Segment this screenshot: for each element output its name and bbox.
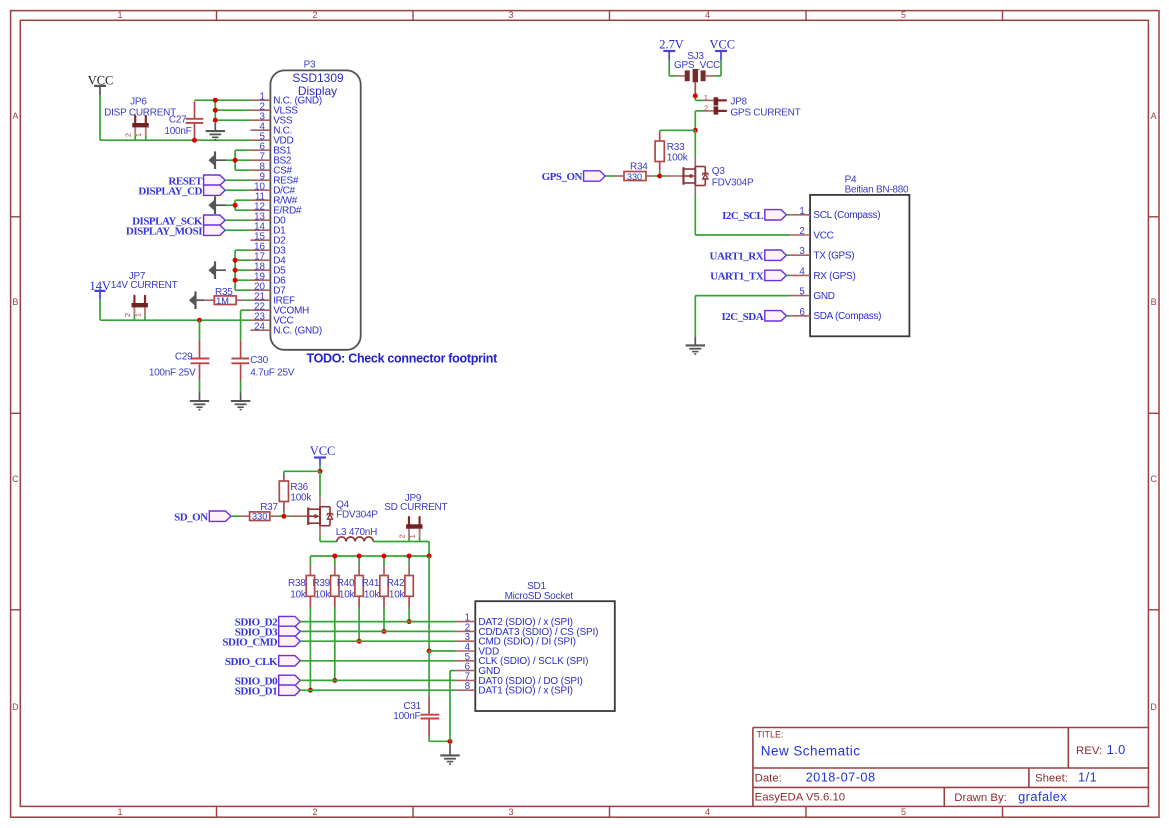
svg-text:VCC: VCC: [710, 38, 735, 52]
svg-text:2: 2: [799, 226, 804, 237]
svg-text:330: 330: [252, 512, 267, 522]
svg-text:D: D: [1150, 702, 1157, 712]
svg-text:C: C: [12, 474, 19, 484]
svg-text:24: 24: [254, 321, 265, 332]
svg-text:100nF: 100nF: [393, 711, 420, 722]
svg-text:R42: R42: [387, 578, 405, 589]
svg-text:C: C: [1150, 474, 1157, 484]
svg-text:VCC: VCC: [813, 230, 833, 241]
svg-text:P3: P3: [304, 60, 316, 71]
svg-text:4: 4: [799, 266, 805, 277]
svg-text:6: 6: [799, 307, 805, 318]
svg-text:D: D: [12, 702, 19, 712]
svg-text:2.7V: 2.7V: [659, 38, 683, 52]
svg-text:2: 2: [123, 313, 132, 317]
svg-text:2: 2: [312, 807, 317, 817]
svg-text:B: B: [1151, 297, 1157, 307]
svg-text:GPS CURRENT: GPS CURRENT: [730, 107, 800, 118]
svg-text:1: 1: [133, 313, 142, 317]
svg-text:3: 3: [799, 246, 805, 257]
svg-text:TX (GPS): TX (GPS): [813, 251, 854, 262]
svg-text:2018-07-08: 2018-07-08: [806, 769, 876, 784]
svg-text:10k: 10k: [315, 590, 332, 601]
svg-text:8: 8: [465, 681, 471, 692]
svg-text:1: 1: [134, 133, 143, 137]
svg-text:I2C_SCL: I2C_SCL: [722, 210, 763, 222]
svg-text:SDIO_CLK: SDIO_CLK: [225, 656, 278, 668]
svg-text:10k: 10k: [339, 590, 356, 601]
svg-text:GND: GND: [813, 291, 834, 302]
svg-text:SD_ON: SD_ON: [174, 511, 208, 523]
svg-text:100nF: 100nF: [164, 126, 191, 137]
svg-text:R40: R40: [337, 578, 355, 589]
svg-text:Sheet:: Sheet:: [1035, 772, 1068, 784]
svg-text:2: 2: [124, 133, 133, 137]
svg-text:SCL (Compass): SCL (Compass): [813, 210, 880, 221]
svg-text:EasyEDA V5.6.10: EasyEDA V5.6.10: [755, 792, 846, 804]
svg-text:I2C_SDA: I2C_SDA: [721, 311, 763, 323]
svg-text:C27: C27: [169, 115, 187, 126]
svg-text:2: 2: [397, 534, 406, 538]
svg-text:B: B: [12, 297, 18, 307]
svg-text:R41: R41: [362, 578, 380, 589]
svg-text:VCC: VCC: [310, 444, 335, 458]
svg-text:SSD1309: SSD1309: [292, 71, 344, 85]
svg-text:3: 3: [508, 10, 513, 20]
svg-text:1: 1: [117, 10, 122, 20]
svg-text:Q3: Q3: [712, 166, 726, 177]
svg-text:SDIO_D1: SDIO_D1: [235, 685, 277, 697]
svg-text:1: 1: [704, 93, 708, 102]
svg-text:Drawn By:: Drawn By:: [954, 792, 1007, 804]
svg-text:L3 470nH: L3 470nH: [336, 527, 377, 538]
svg-text:SDA (Compass): SDA (Compass): [813, 311, 881, 322]
svg-text:DISPLAY_CD: DISPLAY_CD: [138, 185, 202, 197]
svg-text:100nF 25V: 100nF 25V: [149, 367, 196, 378]
svg-text:JP6: JP6: [130, 96, 147, 107]
svg-text:10k: 10k: [389, 590, 406, 601]
svg-text:4: 4: [705, 807, 710, 817]
svg-text:1: 1: [408, 534, 417, 538]
svg-text:A: A: [12, 111, 18, 121]
svg-text:FDV304P: FDV304P: [712, 177, 754, 188]
svg-text:Date:: Date:: [755, 772, 782, 784]
svg-text:5: 5: [901, 807, 906, 817]
svg-text:UART1_TX: UART1_TX: [710, 271, 764, 283]
svg-text:UART1_RX: UART1_RX: [710, 250, 764, 262]
svg-text:1: 1: [799, 206, 804, 217]
svg-text:C30: C30: [250, 355, 268, 366]
svg-text:A: A: [1151, 111, 1157, 121]
svg-text:10k: 10k: [364, 590, 381, 601]
svg-text:5: 5: [799, 287, 805, 298]
svg-text:JP8: JP8: [730, 97, 747, 108]
svg-text:SDIO_CMD: SDIO_CMD: [222, 636, 277, 648]
svg-text:RX (GPS): RX (GPS): [813, 271, 855, 282]
svg-text:Beitian BN-880: Beitian BN-880: [845, 185, 909, 196]
svg-text:REV:: REV:: [1076, 745, 1102, 757]
svg-text:1.0: 1.0: [1107, 742, 1126, 757]
svg-text:TITLE:: TITLE:: [757, 729, 784, 739]
svg-text:R39: R39: [312, 578, 330, 589]
svg-text:4: 4: [705, 10, 710, 20]
svg-text:1M: 1M: [216, 296, 229, 306]
svg-text:3: 3: [508, 807, 513, 817]
svg-text:1: 1: [117, 807, 122, 817]
svg-text:330: 330: [627, 172, 642, 182]
svg-text:C29: C29: [175, 351, 193, 362]
svg-text:1/1: 1/1: [1078, 769, 1097, 784]
svg-text:10k: 10k: [290, 590, 307, 601]
svg-text:SD CURRENT: SD CURRENT: [384, 502, 447, 513]
svg-text:100k: 100k: [290, 492, 312, 503]
svg-text:4.7uF 25V: 4.7uF 25V: [250, 367, 294, 378]
svg-text:FDV304P: FDV304P: [336, 510, 378, 521]
svg-text:grafalex: grafalex: [1018, 789, 1067, 804]
svg-text:TODO: Check connector footprin: TODO: Check connector footprint: [307, 352, 499, 366]
svg-text:R38: R38: [288, 578, 306, 589]
svg-text:100k: 100k: [667, 152, 689, 163]
svg-text:DISPLAY_MOSI: DISPLAY_MOSI: [126, 225, 202, 237]
svg-text:New Schematic: New Schematic: [761, 744, 861, 759]
svg-text:2: 2: [312, 10, 317, 20]
svg-text:MicroSD Socket: MicroSD Socket: [505, 591, 574, 602]
svg-text:5: 5: [901, 10, 906, 20]
svg-text:N.C. (GND): N.C. (GND): [273, 326, 322, 337]
svg-text:DAT1 (SDIO) / x (SPI): DAT1 (SDIO) / x (SPI): [478, 686, 572, 697]
svg-text:DISP CURRENT: DISP CURRENT: [104, 108, 176, 119]
svg-text:GPS_ON: GPS_ON: [542, 171, 583, 183]
svg-text:14V CURRENT: 14V CURRENT: [111, 280, 178, 291]
